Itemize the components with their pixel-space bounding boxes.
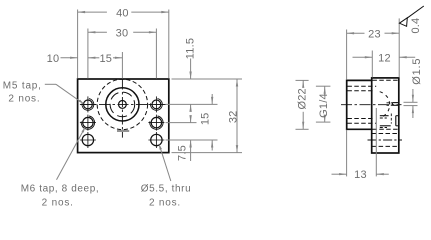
dimension 30 line <box>88 31 156 33</box>
leader M6 <box>57 127 86 180</box>
dimension 23 text <box>368 28 381 40</box>
hidden line Ø5.5 top <box>372 133 399 135</box>
svg-text:13: 13 <box>354 169 367 181</box>
svg-text:40: 40 <box>116 7 129 19</box>
ext line G1/4 top <box>316 85 331 87</box>
dimension 12 text <box>378 52 391 64</box>
svg-text:11.5: 11.5 <box>185 38 197 59</box>
extension line right hole column <box>155 29 157 79</box>
M6 tapped hole mid-left <box>80 115 96 131</box>
ext line Ø1.5 top <box>404 101 418 103</box>
M5 tapped hole top-left <box>80 96 96 112</box>
extension line top edge right <box>172 78 243 80</box>
hidden arc port drill end <box>380 92 390 117</box>
bore thread dashed circle <box>110 92 135 117</box>
dimension 7.5 line <box>189 115 191 161</box>
svg-text:23: 23 <box>368 28 381 40</box>
svg-text:0.4: 0.4 <box>410 18 422 34</box>
ext line Ø22 top <box>296 79 309 81</box>
side view block outline <box>372 78 399 153</box>
svg-text:32: 32 <box>227 110 239 123</box>
hidden cluster M6 side port <box>380 114 399 128</box>
dimension 32 line <box>236 79 238 153</box>
svg-text:10: 10 <box>47 53 60 65</box>
dimension 10 leader line <box>61 57 78 59</box>
dimension Ø22 line <box>302 80 304 129</box>
M5 tapped hole top-right <box>148 96 164 112</box>
svg-text:Ø5.5, thru: Ø5.5, thru <box>141 184 191 195</box>
dimension 30 text <box>116 27 129 39</box>
ext line Ø22 bottom <box>296 128 309 130</box>
svg-text:G1/4: G1/4 <box>318 93 330 118</box>
dimension 32 text <box>227 110 239 123</box>
hidden line pilot top <box>347 90 374 92</box>
extension line row2 right <box>166 122 197 124</box>
svg-text:2 nos.: 2 nos. <box>8 94 40 105</box>
dimension 11.5 line <box>189 59 191 112</box>
dimension 7.5 text <box>177 145 189 161</box>
dimension Ø1.5 text <box>411 58 423 85</box>
svg-text:15: 15 <box>199 112 211 125</box>
centerline Ø5.5 row <box>368 139 403 141</box>
dimension Ø1.5 line <box>412 89 414 118</box>
svg-text:15: 15 <box>99 53 112 65</box>
dimension 15 line <box>88 57 123 59</box>
bore small center hole <box>119 101 127 109</box>
ext line 13 left <box>346 130 348 177</box>
extension line left hole column <box>87 29 89 79</box>
extension line row1 right <box>166 103 218 105</box>
side view boss outline <box>347 80 372 129</box>
side view horizontal centerline <box>341 104 402 106</box>
ext line side right top <box>398 18 400 77</box>
ext line 13 right <box>375 108 377 176</box>
hidden line Ø5.5 bottom <box>372 145 399 147</box>
hidden line boss top through block <box>372 79 398 81</box>
dimension 13 text <box>354 169 367 181</box>
dimension 15 vertical line <box>211 94 213 151</box>
dimension 11.5 text <box>185 38 197 59</box>
dimension 12 line <box>353 56 416 58</box>
leader Ø5.5 <box>159 144 171 181</box>
label Ø5.5 thru <box>141 184 191 209</box>
ext line G1/4 bottom <box>316 121 331 123</box>
svg-text:7.5: 7.5 <box>177 145 189 161</box>
bolt circle dashed (counterbore Ø22) <box>97 79 147 129</box>
bore outer solid circle <box>106 88 139 121</box>
surface finish symbol <box>399 6 423 26</box>
extension line centerline top <box>121 52 123 79</box>
front view part outline rectangle <box>78 79 169 153</box>
leader M5 <box>45 84 84 104</box>
svg-text:M5 tap,: M5 tap, <box>3 80 42 91</box>
dimension 15 vertical text <box>199 112 211 125</box>
hidden line G1/4 thread top <box>347 85 376 87</box>
dimension 13 line <box>332 173 389 175</box>
front view vertical centerline <box>121 80 123 138</box>
svg-text:2 nos.: 2 nos. <box>149 198 181 209</box>
dimension 10 text <box>47 53 60 65</box>
ext line Ø1.5 bottom <box>404 105 418 107</box>
dimension 15 text <box>99 53 112 65</box>
dimension 40 text <box>116 7 129 19</box>
dimension G1/4 text <box>318 93 330 118</box>
label M6 tap <box>21 184 100 209</box>
svg-text:M6 tap, 8 deep,: M6 tap, 8 deep, <box>21 184 100 195</box>
Ø5.5 clearance hole bottom-right <box>148 132 164 148</box>
extension line row3 right <box>166 139 218 141</box>
ext line block left top <box>371 51 373 78</box>
svg-text:2 nos.: 2 nos. <box>42 198 74 209</box>
M6 tapped hole mid-right <box>148 115 164 131</box>
dimension 23 line <box>347 32 400 34</box>
dimension G1/4 line <box>324 86 326 122</box>
svg-text:12: 12 <box>378 52 391 64</box>
ext line side left top <box>346 30 348 80</box>
Ø5.5 clearance hole bottom-left <box>80 132 96 148</box>
centermark cross below bore <box>117 130 129 132</box>
orifice hidden dashes <box>387 103 393 106</box>
hidden line boss bottom through block <box>372 128 398 130</box>
extension line bottom edge right <box>172 152 243 154</box>
front view horizontal centerline <box>81 103 166 105</box>
svg-text:Ø22: Ø22 <box>296 88 308 109</box>
dimension 40 line <box>78 11 169 13</box>
surface finish value 0.4 <box>410 18 422 34</box>
orifice Ø1.5 slot <box>392 103 398 106</box>
extension line left edge <box>77 10 79 79</box>
hidden line pilot bottom <box>347 118 374 120</box>
svg-text:30: 30 <box>116 27 129 39</box>
extension line right edge <box>168 10 170 79</box>
svg-text:Ø1.5: Ø1.5 <box>411 58 423 85</box>
hidden line G1/4 thread bottom <box>347 122 376 124</box>
dimension Ø22 text <box>296 88 308 109</box>
label M5 tap <box>3 80 42 104</box>
